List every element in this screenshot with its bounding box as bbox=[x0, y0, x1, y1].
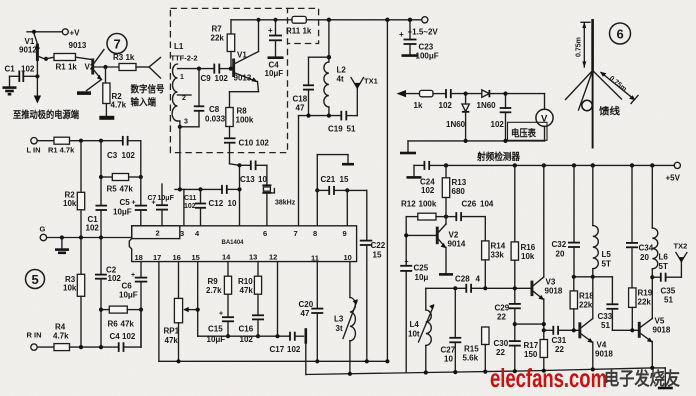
svg-text:47k: 47k bbox=[121, 320, 135, 329]
svg-text:51: 51 bbox=[347, 125, 356, 134]
resistor R11 1k bbox=[286, 16, 312, 35]
wire RF ground bus (bottom row 2) bbox=[306, 344, 666, 376]
svg-text:+V: +V bbox=[70, 28, 81, 37]
svg-text:L6: L6 bbox=[659, 253, 669, 262]
svg-text:R7: R7 bbox=[212, 25, 223, 34]
wire pin 12 column bbox=[277, 262, 279, 337]
svg-text:R13: R13 bbox=[452, 178, 467, 187]
svg-text:22: 22 bbox=[496, 348, 505, 357]
svg-text:15: 15 bbox=[340, 175, 349, 184]
svg-text:R1 1k: R1 1k bbox=[56, 62, 78, 71]
wire pin 16 column bbox=[178, 262, 180, 299]
resistor R17 150 bbox=[524, 340, 548, 371]
svg-text:C9: C9 bbox=[201, 74, 212, 83]
svg-text:33k: 33k bbox=[491, 251, 505, 260]
resistor R18 22k bbox=[570, 277, 594, 333]
label voltmeter (Chinese, boxed) bbox=[508, 122, 548, 140]
wire pin 17 column bbox=[158, 262, 160, 362]
antenna dimension 0.75m (diagonal) bbox=[600, 72, 638, 104]
transistor V1 9013 (oscillator) bbox=[232, 20, 258, 83]
svg-text:C22: C22 bbox=[371, 241, 386, 250]
resistor R1 4.7k (audio) bbox=[48, 137, 123, 154]
capacitor C24 102 with ground bbox=[407, 161, 436, 195]
antenna dimension 0.75m (vertical) bbox=[576, 22, 591, 68]
transistor V5 9018 bbox=[638, 317, 671, 368]
svg-text:18: 18 bbox=[135, 253, 143, 262]
svg-text:BA1404: BA1404 bbox=[222, 240, 245, 246]
svg-text:V3: V3 bbox=[546, 278, 556, 287]
capacitor C22 15 bbox=[347, 190, 385, 361]
svg-text:4: 4 bbox=[476, 275, 481, 284]
node detector junction 2 bbox=[503, 92, 507, 96]
svg-text:R IN: R IN bbox=[27, 331, 42, 340]
svg-text:104: 104 bbox=[480, 200, 494, 209]
capacitor C20 47 bbox=[299, 300, 324, 363]
wire pin 8 column bbox=[316, 190, 318, 225]
svg-text:C1: C1 bbox=[5, 65, 16, 74]
capacitor C31 22 bbox=[544, 326, 579, 354]
svg-text:10: 10 bbox=[258, 175, 267, 184]
wire V2 base row bbox=[404, 217, 436, 266]
svg-text:L5: L5 bbox=[602, 250, 612, 259]
capacitor 102 (detector series) bbox=[439, 89, 466, 110]
wire tank top to C18 bbox=[309, 57, 329, 85]
inductor L3 3t (variable) bbox=[334, 262, 358, 375]
svg-text:47: 47 bbox=[296, 104, 305, 113]
svg-text:TTF-2-2: TTF-2-2 bbox=[171, 54, 198, 63]
wire pin 5 column bbox=[237, 163, 241, 226]
diode 1N60 (shunt) bbox=[446, 94, 469, 141]
wire L1 bottom column down to C11 row bbox=[179, 127, 181, 190]
svg-text:22k: 22k bbox=[211, 34, 225, 43]
wire bbox=[46, 57, 54, 59]
voltmeter V bbox=[506, 94, 554, 141]
node detector junction 1 bbox=[464, 92, 468, 96]
svg-text:47k: 47k bbox=[165, 336, 179, 345]
svg-text:R10: R10 bbox=[238, 277, 253, 286]
svg-text:C3: C3 bbox=[107, 151, 118, 160]
svg-text:9012: 9012 bbox=[19, 46, 37, 55]
svg-text:17: 17 bbox=[153, 253, 161, 262]
svg-text:102: 102 bbox=[439, 101, 453, 110]
svg-text:R12: R12 bbox=[401, 200, 416, 209]
wire pin 9 column bbox=[346, 190, 348, 225]
shield box (dashed) around oscillator bbox=[170, 8, 287, 152]
wire emitter to divider bbox=[515, 323, 544, 325]
transistor V2 9014 bbox=[436, 217, 466, 273]
svg-text:R18: R18 bbox=[579, 292, 594, 301]
svg-text:C7: C7 bbox=[148, 195, 157, 202]
svg-text:C27: C27 bbox=[441, 346, 456, 355]
ground bar under V2 9014 bbox=[439, 273, 453, 276]
svg-text:10t: 10t bbox=[408, 330, 420, 339]
resistor 1k (detector) bbox=[414, 90, 447, 110]
svg-text:1: 1 bbox=[180, 74, 184, 81]
svg-text:elecfans.com: elecfans.com bbox=[490, 363, 607, 393]
svg-text:+1.5~2V: +1.5~2V bbox=[408, 28, 439, 37]
inductor L4 10t (variable) bbox=[408, 288, 434, 372]
capacitor C23 100uF with +1.5~2V terminal bbox=[399, 17, 439, 61]
svg-text:3: 3 bbox=[180, 229, 184, 238]
svg-text:L1: L1 bbox=[174, 42, 184, 51]
capacitor C12 10 bbox=[209, 185, 240, 208]
resistor R15 5.6k bbox=[463, 327, 490, 373]
terminal +5V bbox=[666, 162, 681, 182]
svg-text:R1 4.7k: R1 4.7k bbox=[48, 146, 75, 155]
node V5 collector / C35 tap bbox=[650, 275, 654, 279]
svg-text:2.7k: 2.7k bbox=[206, 286, 222, 295]
svg-text:100k: 100k bbox=[419, 200, 437, 209]
svg-text:7: 7 bbox=[114, 37, 121, 52]
node L1 bottom junction bbox=[178, 125, 182, 129]
ground stub at far right bbox=[658, 368, 673, 388]
inductor L6 5T bbox=[652, 165, 668, 318]
ground bar under R2 bbox=[99, 116, 114, 120]
resistor R1 1k bbox=[54, 54, 77, 72]
svg-text:C32: C32 bbox=[552, 240, 567, 249]
resistor R16 10k bbox=[511, 165, 536, 304]
svg-text:102: 102 bbox=[287, 345, 301, 354]
wire C3 corner down bbox=[140, 141, 142, 177]
svg-text:102: 102 bbox=[491, 120, 505, 129]
svg-text:V2: V2 bbox=[85, 63, 95, 72]
svg-text:R19: R19 bbox=[638, 289, 653, 298]
svg-text:22: 22 bbox=[497, 313, 506, 322]
svg-text:R5: R5 bbox=[107, 185, 118, 194]
transistor V3 9018 bbox=[531, 165, 563, 339]
svg-text:5.6k: 5.6k bbox=[463, 354, 479, 363]
svg-text:C16: C16 bbox=[239, 325, 254, 334]
svg-text:47k: 47k bbox=[120, 185, 134, 194]
wire pin 3 column bbox=[183, 189, 185, 225]
svg-text:6: 6 bbox=[263, 229, 267, 238]
svg-text:R14: R14 bbox=[491, 242, 506, 251]
svg-text:C28: C28 bbox=[455, 275, 470, 284]
svg-text:0.75m: 0.75m bbox=[576, 37, 583, 57]
svg-text:C8: C8 bbox=[209, 105, 220, 114]
wire oscillator feed row bbox=[426, 286, 532, 290]
node rail junction for tank bbox=[327, 18, 331, 22]
svg-text:C15: C15 bbox=[208, 325, 223, 334]
svg-text:C20: C20 bbox=[299, 300, 314, 309]
svg-text:C21: C21 bbox=[321, 175, 336, 184]
capacitor C11 102 (on pin 4 column) bbox=[184, 187, 206, 226]
node RF detector arrow bbox=[397, 90, 420, 97]
svg-text:R6: R6 bbox=[108, 320, 119, 329]
capacitor C15 10uF bbox=[207, 311, 235, 345]
svg-text:1k: 1k bbox=[414, 101, 423, 110]
resistor R7 22k bbox=[211, 20, 235, 69]
ground bar (C21 return) bbox=[342, 163, 354, 166]
transistor V1 (9012) bbox=[19, 34, 46, 62]
svg-text:馈线: 馈线 bbox=[599, 106, 621, 118]
capacitor C26 104 bbox=[446, 200, 494, 222]
resistor R3 10k bbox=[63, 238, 85, 348]
svg-text:R4: R4 bbox=[55, 323, 66, 332]
node circled 7 bbox=[107, 34, 127, 54]
svg-text:9014: 9014 bbox=[448, 240, 466, 249]
wire to input fork bbox=[136, 66, 149, 68]
capacitor C30 22 bbox=[494, 339, 521, 372]
svg-text:47k: 47k bbox=[240, 286, 254, 295]
svg-text:102: 102 bbox=[215, 74, 229, 83]
svg-text:100μF: 100μF bbox=[416, 52, 439, 61]
label digital signal input (Chinese) bbox=[130, 84, 165, 109]
svg-text:C19: C19 bbox=[328, 125, 343, 134]
antenna TX1 bbox=[351, 77, 378, 116]
wire R1 to V2 base bbox=[76, 57, 92, 59]
inductor L1 TTF-2-2 bbox=[171, 42, 200, 127]
svg-text:3t: 3t bbox=[336, 324, 343, 333]
svg-text:V1: V1 bbox=[237, 51, 247, 60]
svg-text:C31: C31 bbox=[552, 336, 567, 345]
svg-text:10μ: 10μ bbox=[415, 273, 429, 282]
resistor R2 10k bbox=[63, 141, 85, 238]
node pin 8 junction bbox=[315, 188, 319, 192]
svg-text:10μF: 10μF bbox=[119, 291, 138, 300]
node +V supply terminal bbox=[27, 28, 80, 37]
resistor R5 47k bbox=[99, 141, 143, 194]
svg-text:102: 102 bbox=[421, 186, 435, 195]
node V2 bias junction bbox=[444, 215, 448, 219]
svg-text:9018: 9018 bbox=[545, 287, 563, 296]
node C29/C30 midpoint bbox=[513, 322, 517, 326]
capacitor C4 102 (audio) bbox=[110, 310, 142, 352]
svg-text:V4: V4 bbox=[597, 341, 607, 350]
svg-text:15: 15 bbox=[373, 251, 382, 260]
node circled 6 bbox=[610, 23, 631, 44]
svg-text:1N60: 1N60 bbox=[477, 101, 497, 110]
svg-text:C29: C29 bbox=[495, 304, 510, 313]
node base of V1 with output arrow to driver stage bbox=[34, 61, 41, 104]
svg-text:C5: C5 bbox=[120, 198, 131, 207]
svg-text:TX2: TX2 bbox=[674, 242, 688, 251]
svg-text:14: 14 bbox=[222, 253, 231, 262]
svg-text:102: 102 bbox=[21, 65, 35, 74]
node A: V1 collector junction bbox=[44, 57, 48, 61]
svg-text:C4: C4 bbox=[110, 332, 121, 341]
svg-text:+5V: +5V bbox=[666, 174, 681, 183]
svg-text:10μF: 10μF bbox=[158, 195, 175, 202]
svg-text:C11: C11 bbox=[184, 195, 197, 202]
svg-text:102: 102 bbox=[256, 139, 270, 148]
wire pin 11 column bbox=[316, 262, 318, 309]
potentiometer RP1 47k bbox=[164, 298, 198, 361]
svg-text:51: 51 bbox=[664, 296, 673, 305]
svg-text:C12: C12 bbox=[209, 199, 224, 208]
svg-text:R3 1k: R3 1k bbox=[113, 53, 135, 62]
svg-text:L4: L4 bbox=[410, 320, 420, 329]
capacitor C32 20 bbox=[552, 165, 581, 276]
svg-text:C26: C26 bbox=[462, 200, 477, 209]
svg-text:16: 16 bbox=[173, 253, 181, 262]
capacitor C5 10uF bbox=[113, 177, 147, 226]
svg-text:C10: C10 bbox=[239, 139, 254, 148]
resistor R6 47k bbox=[99, 306, 143, 328]
svg-text:2: 2 bbox=[182, 95, 186, 102]
svg-text:12: 12 bbox=[269, 253, 277, 262]
wire +5V rail bbox=[429, 163, 674, 167]
capacitor C21 15 bbox=[317, 175, 349, 195]
wire V4 collector row bbox=[572, 275, 613, 279]
svg-text:+: + bbox=[399, 30, 404, 39]
svg-text:10: 10 bbox=[444, 355, 453, 364]
svg-text:3: 3 bbox=[184, 119, 188, 126]
resistor R9 2.7k bbox=[206, 262, 232, 318]
svg-text:1N60: 1N60 bbox=[446, 120, 466, 129]
wire L1 bottom to C8 bottom bbox=[180, 126, 199, 128]
svg-text:C13: C13 bbox=[240, 175, 255, 184]
svg-text:6: 6 bbox=[617, 27, 624, 42]
node junction L1 column / pin3 bbox=[178, 187, 182, 191]
svg-text:10: 10 bbox=[228, 199, 237, 208]
resistor R4 4.7k bbox=[53, 323, 119, 351]
wire rail to tank top bbox=[328, 20, 330, 62]
svg-text:102: 102 bbox=[86, 224, 100, 233]
svg-text:47: 47 bbox=[301, 309, 310, 318]
svg-text:至推动极的电源端: 至推动极的电源端 bbox=[13, 109, 79, 121]
svg-text:V2: V2 bbox=[449, 231, 459, 240]
wire main +V rail bbox=[231, 19, 422, 21]
wire pin 15 column bbox=[196, 262, 200, 337]
svg-text:L3: L3 bbox=[334, 315, 344, 324]
feed loop bbox=[582, 100, 592, 110]
capacitor C16 102 bbox=[239, 315, 265, 344]
svg-text:9018: 9018 bbox=[653, 326, 671, 335]
node circled 5 bbox=[26, 270, 45, 289]
svg-text:51: 51 bbox=[601, 321, 610, 330]
capacitor C1 102 bbox=[5, 65, 38, 83]
svg-text:10k: 10k bbox=[63, 284, 77, 293]
inductor L2 4t bbox=[324, 62, 347, 116]
diode 1N60 (series) bbox=[466, 90, 506, 110]
wire V2 emitter node bbox=[94, 66, 119, 68]
node V1 collector on rail bbox=[256, 18, 260, 22]
svg-text:4t: 4t bbox=[337, 75, 344, 84]
svg-text:L2: L2 bbox=[337, 66, 347, 75]
wire tank bottom to IC pin 7 bbox=[298, 116, 300, 226]
capacitor C10 102 bbox=[224, 138, 269, 165]
svg-text:C23: C23 bbox=[419, 43, 434, 52]
wire long vertical trunk from rail bbox=[385, 18, 389, 362]
capacitor C29 22 bbox=[495, 304, 521, 342]
capacitor C19 51 bbox=[328, 111, 357, 134]
capacitor C9 102 bbox=[197, 64, 232, 83]
ground bar (detector) bbox=[400, 152, 416, 155]
svg-text:102: 102 bbox=[108, 274, 122, 283]
svg-text:38kHz: 38kHz bbox=[275, 200, 296, 207]
node pin 9 junction bbox=[345, 188, 349, 192]
wire tank bottom row bbox=[299, 114, 342, 118]
svg-text:102: 102 bbox=[184, 203, 196, 210]
svg-text:9013: 9013 bbox=[69, 41, 87, 50]
svg-text:TX1: TX1 bbox=[364, 77, 378, 86]
resistor R19 22k bbox=[629, 288, 653, 333]
node tank top bbox=[327, 55, 331, 59]
antenna vertical element bbox=[591, 19, 594, 71]
svg-text:9: 9 bbox=[343, 229, 347, 238]
node V3 emitter junctions bbox=[542, 322, 546, 332]
antenna radials bbox=[566, 71, 622, 111]
svg-text:680: 680 bbox=[452, 187, 466, 196]
svg-text:L IN: L IN bbox=[27, 146, 41, 155]
wire C15/C16 bottom row bbox=[198, 334, 290, 338]
resistor R3 1k bbox=[113, 53, 136, 70]
ground bbox=[3, 76, 17, 94]
svg-text:V5: V5 bbox=[655, 317, 665, 326]
capacitor C6 10uF bbox=[119, 262, 147, 348]
svg-text:102: 102 bbox=[122, 151, 136, 160]
svg-text:C35: C35 bbox=[661, 287, 676, 296]
svg-text:C34: C34 bbox=[639, 244, 654, 253]
svg-text:15: 15 bbox=[192, 253, 200, 262]
capacitor C7 10uF bbox=[148, 184, 175, 226]
capacitor C3 102 bbox=[107, 136, 141, 160]
svg-text:150: 150 bbox=[524, 350, 538, 359]
capacitor C25 10u bbox=[400, 259, 429, 373]
svg-text:5: 5 bbox=[32, 272, 39, 287]
svg-text:输入端: 输入端 bbox=[131, 97, 157, 109]
svg-text:0.033: 0.033 bbox=[205, 115, 226, 124]
antenna feed line bbox=[592, 71, 594, 149]
svg-text:射频检测器: 射频检测器 bbox=[476, 151, 520, 163]
svg-text:22k: 22k bbox=[579, 301, 593, 310]
svg-text:9013: 9013 bbox=[234, 74, 252, 83]
svg-text:5T: 5T bbox=[602, 260, 611, 269]
svg-text:8: 8 bbox=[313, 229, 317, 238]
svg-text:102: 102 bbox=[122, 332, 136, 341]
capacitor C27 10 bbox=[441, 288, 462, 372]
terminal G with ground bbox=[40, 225, 132, 253]
capacitor C35 51 bbox=[652, 273, 681, 305]
capacitor C4 10uF bbox=[265, 18, 284, 78]
capacitor C18 47 bbox=[293, 85, 315, 115]
node digital signal input fork bbox=[149, 58, 161, 79]
capacitor C1 102 (audio) bbox=[86, 177, 108, 238]
svg-text:+: + bbox=[268, 26, 273, 35]
svg-text:4.7k: 4.7k bbox=[111, 101, 127, 110]
terminal R IN bbox=[27, 331, 55, 351]
svg-text:C6: C6 bbox=[122, 282, 133, 291]
wire pin8 node up-over to ground bbox=[317, 155, 348, 191]
svg-text:4.7k: 4.7k bbox=[53, 332, 69, 341]
svg-text:10μF: 10μF bbox=[113, 208, 132, 217]
svg-text:数字信号: 数字信号 bbox=[130, 84, 165, 96]
svg-text:100k: 100k bbox=[236, 116, 254, 125]
capacitor C17 102 bbox=[270, 328, 306, 354]
svg-text:+: + bbox=[131, 272, 135, 279]
svg-text:20: 20 bbox=[640, 253, 649, 262]
svg-text:C30: C30 bbox=[494, 339, 509, 348]
svg-text:R11 1k: R11 1k bbox=[286, 27, 312, 36]
svg-text:R16: R16 bbox=[521, 243, 536, 252]
svg-text:R17: R17 bbox=[524, 341, 539, 350]
resistor R2 4.7k bbox=[103, 67, 127, 116]
resistor R14 33k bbox=[482, 217, 506, 289]
terminal L IN bbox=[27, 138, 55, 155]
resistor R10 47k bbox=[238, 262, 262, 316]
wire V1 emitter return bbox=[230, 82, 259, 108]
svg-text:R15: R15 bbox=[464, 345, 479, 354]
capacitor C13 10 bbox=[240, 161, 268, 185]
svg-text:10μF: 10μF bbox=[265, 69, 284, 78]
capacitor C34 20 bbox=[626, 165, 654, 288]
resistor R12 100k bbox=[401, 200, 446, 221]
capacitor C33 51 bbox=[598, 277, 638, 331]
node junctions on L row bbox=[79, 139, 103, 143]
svg-text:电压表: 电压表 bbox=[511, 128, 536, 140]
IC U1 BA1404 outline bbox=[129, 226, 356, 262]
